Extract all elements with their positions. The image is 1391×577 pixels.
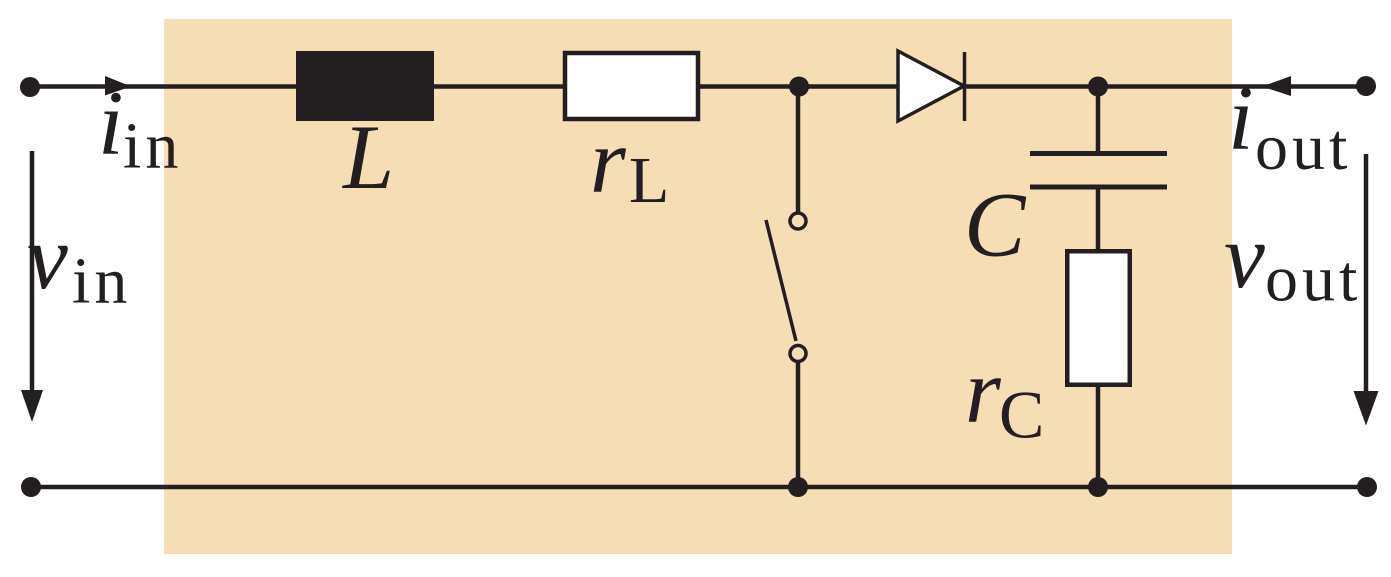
svg-text:r: r (590, 110, 627, 212)
wire top-left segment (30, 84, 298, 89)
shaded converter region (164, 19, 1232, 554)
label v_in (27, 206, 131, 318)
svg-text:v: v (1224, 205, 1265, 307)
wire r_C to bottom (1096, 387, 1101, 487)
svg-text:C: C (999, 377, 1044, 453)
terminal input bottom (21, 477, 41, 497)
node C (switch bottom) (788, 477, 808, 497)
node A (switch top) (789, 77, 809, 97)
svg-text:i: i (1228, 67, 1254, 169)
wire r_L to diode (698, 84, 898, 89)
terminal input top (20, 77, 40, 97)
resistor r_C (1067, 251, 1130, 385)
label v_out (1224, 205, 1361, 316)
inductor L (296, 51, 434, 121)
wire diode to output (964, 84, 1366, 89)
voltage arrow v_in (21, 151, 43, 422)
switch branch wire upper (796, 87, 801, 214)
label i_in (98, 72, 182, 183)
svg-text:L: L (629, 144, 669, 217)
svg-text:L: L (341, 106, 394, 208)
terminal output top (1356, 76, 1376, 96)
svg-text:C: C (964, 174, 1027, 276)
capacitor branch wire upper (1096, 87, 1101, 152)
diode D (898, 51, 965, 121)
svg-text:in: in (72, 245, 131, 318)
svg-text:i: i (98, 72, 124, 174)
wire capacitor to r_C (1096, 187, 1101, 251)
capacitor C (1030, 154, 1167, 188)
current arrow i_out (1262, 76, 1291, 96)
svg-text:v: v (27, 206, 68, 308)
svg-text:in: in (123, 110, 182, 183)
svg-text:r: r (965, 340, 1002, 442)
svg-text:out: out (1255, 111, 1351, 184)
switch branch wire lower (796, 362, 801, 487)
current arrow i_in (105, 76, 131, 96)
node D (r_C bottom) (1088, 477, 1108, 497)
label r_L (590, 110, 669, 217)
bottom wire (31, 485, 1367, 490)
resistor r_L (565, 53, 698, 119)
switch S (766, 213, 806, 362)
terminal output bottom (1357, 477, 1377, 497)
label r_C (965, 340, 1044, 453)
svg-text:out: out (1265, 243, 1361, 316)
wire between L and r_L (434, 84, 565, 89)
label i_out (1228, 67, 1351, 184)
voltage arrow v_out (1354, 154, 1379, 426)
node B (capacitor top) (1088, 77, 1108, 97)
